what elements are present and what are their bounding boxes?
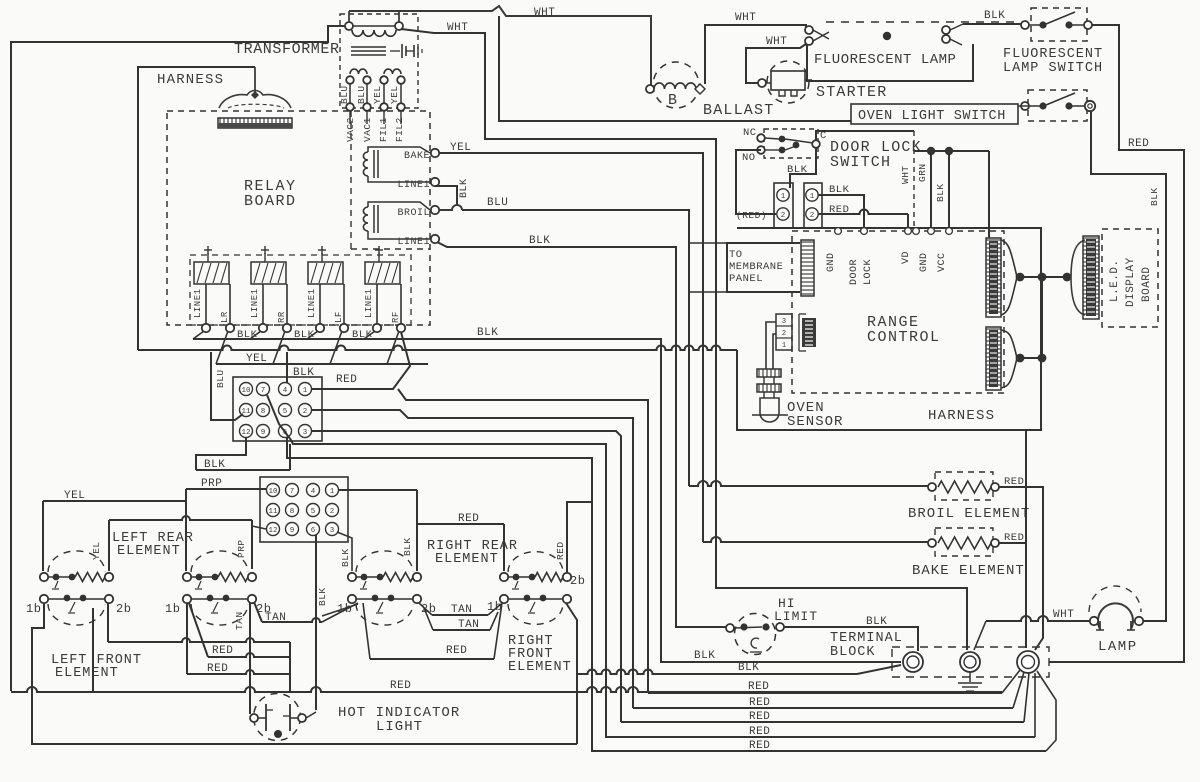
svg-text:LINE1: LINE1 (307, 288, 317, 318)
wire: K2 to LINE1 terminal (368, 231, 430, 239)
svg-text:HARNESS: HARNESS (157, 72, 224, 88)
svg-text:2b: 2b (421, 602, 436, 616)
svg-text:HARNESS: HARNESS (928, 408, 995, 424)
P1 pin 3 (299, 425, 312, 438)
relay coil K2 (broil) (363, 207, 368, 231)
wire: K1 to BAKE terminal (368, 147, 430, 153)
wire TAN lower: element3 2b to element4 (424, 608, 433, 630)
svg-text:FLUORESCENT LAMP: FLUORESCENT LAMP (814, 52, 956, 68)
terminal block dashed box (892, 647, 1049, 677)
capacitor / ground at transformer core (390, 50, 400, 52)
svg-text:RED: RED (1004, 476, 1024, 488)
relay board dashed enclosure (167, 111, 430, 325)
door lock switch contacts (757, 134, 765, 142)
svg-text:BAKE: BAKE (404, 151, 430, 162)
relay unit 1 coil (194, 262, 229, 284)
svg-text:7: 7 (290, 488, 295, 496)
P2 pin 9 (286, 523, 299, 536)
oven sensor plug bars (757, 369, 781, 377)
wire TAN: element2 2b to element3 1b (254, 602, 262, 622)
svg-text:LIMIT: LIMIT (774, 609, 818, 624)
secondary terminals row 2 (346, 103, 354, 111)
wire BLK jog LINE1-BROIL (435, 186, 457, 206)
svg-text:NO: NO (742, 152, 756, 164)
door lock switch dashed box (764, 129, 818, 158)
wire RED: J2-2 to range control (818, 210, 908, 215)
wire TAN: element3 2b to element4 1b (419, 603, 432, 615)
hi limit dashed circle (735, 614, 776, 655)
P1 pin 5 (279, 404, 292, 417)
P2 pin 4 (307, 484, 320, 497)
oven lamp terminals (1090, 617, 1098, 625)
wire: primary top link (353, 25, 395, 27)
svg-text:YEL: YEL (372, 85, 383, 104)
svg-text:RED: RED (749, 740, 770, 752)
L.E.D. display board dashed box (1102, 229, 1158, 327)
wire RED fan 2 (633, 707, 1013, 709)
svg-text:TO: TO (729, 249, 743, 261)
svg-text:TAN: TAN (265, 612, 286, 624)
hi limit contacts (726, 624, 734, 632)
wire: P2 pin3 to right rear element left (337, 532, 352, 571)
svg-text:RED: RED (390, 680, 411, 692)
svg-text:PRP: PRP (201, 478, 222, 490)
relay unit 4 contacts (376, 284, 378, 324)
svg-text:WHT: WHT (900, 165, 911, 184)
element switch dashed circle (lower) (508, 604, 563, 624)
wire WHT lower from transformer right terminal down-right (401, 29, 967, 650)
wire BLK: LINE1 terminal to hi-limit (437, 242, 726, 627)
range control side connector (dark) (802, 318, 816, 347)
svg-text:OVEN LIGHT SWITCH: OVEN LIGHT SWITCH (858, 109, 1006, 124)
svg-text:9: 9 (290, 527, 295, 535)
wire: junction run to display connector (914, 150, 989, 152)
svg-text:3: 3 (330, 527, 335, 535)
wire RED fan 1 (to range control feeder x648) (648, 692, 1002, 694)
svg-text:RED: RED (749, 726, 770, 738)
relay unit 1 contacts (205, 284, 207, 324)
wire: P1 pin7 feeder (267, 395, 606, 738)
wire: element3 1b down to hot indicator right (322, 604, 358, 616)
svg-text:LOCK: LOCK (863, 259, 874, 285)
svg-text:LINE1: LINE1 (397, 237, 430, 248)
P2 pin 12 (267, 523, 280, 536)
svg-text:ELEMENT: ELEMENT (508, 660, 572, 675)
svg-text:2: 2 (781, 212, 786, 220)
svg-text:WHT: WHT (447, 22, 468, 34)
svg-text:YEL: YEL (91, 541, 102, 560)
svg-text:BLK: BLK (529, 235, 550, 247)
svg-text:TERMINAL: TERMINAL (830, 631, 903, 646)
wire RED: bake to T3 (999, 542, 1026, 544)
wire: relay 3 diagonals to buses (307, 331, 318, 339)
wire RED: element1 2b to element row (107, 603, 109, 642)
svg-text:SWITCH: SWITCH (830, 154, 891, 171)
svg-text:WHT: WHT (1053, 609, 1074, 621)
svg-text:ELEMENT: ELEMENT (55, 666, 119, 681)
element switch dashed circle (lower) (356, 604, 413, 625)
transformer primary terminal right (395, 22, 403, 30)
svg-text:RR: RR (277, 311, 287, 323)
svg-text:1b: 1b (26, 602, 41, 616)
svg-text:RED: RED (749, 711, 770, 723)
svg-text:YEL: YEL (389, 85, 400, 104)
wire YEL: BAKE terminal to bake element (439, 153, 703, 542)
svg-text:MEMBRANE: MEMBRANE (729, 261, 783, 273)
svg-text:NC: NC (743, 127, 757, 139)
wire BLU: BROIL terminal to broil element (439, 205, 462, 210)
wire RED: element2 1b diagonal (189, 603, 208, 657)
svg-text:LF: LF (334, 311, 344, 323)
terminal T2 (neutral) (960, 652, 980, 672)
bake element resistor (928, 539, 936, 547)
oven sensor bulb (760, 398, 779, 422)
svg-text:RED: RED (1004, 532, 1024, 544)
wire RED fan 4 (606, 736, 1035, 738)
element heater dashed circle (upper) (48, 551, 105, 572)
relay unit 3 coil (308, 262, 343, 284)
element terminals upper (40, 573, 48, 581)
svg-text:8: 8 (290, 508, 295, 516)
svg-text:9: 9 (261, 429, 266, 437)
svg-text:TAN: TAN (451, 604, 472, 616)
range control display connector CN-A (986, 238, 1001, 317)
svg-text:PANEL: PANEL (729, 273, 763, 285)
svg-text:RED: RED (748, 681, 769, 693)
wire: hot indicator right terminal up (306, 712, 316, 718)
P2 pin 11 (267, 504, 280, 517)
fluorescent lamp label box (807, 44, 973, 81)
svg-text:GND: GND (826, 252, 837, 272)
svg-text:TAN: TAN (458, 619, 479, 631)
wire: CN-A to LED board (1017, 276, 1071, 278)
wire: P1 pin3 feeder (311, 431, 621, 722)
terminal LINE1 (bake) (431, 178, 439, 186)
wire: relay 2 diagonals to buses (250, 331, 261, 339)
relay unit 4 terminal (LINE1) (373, 324, 381, 332)
hot indicator terminals (250, 714, 258, 722)
svg-text:BLU: BLU (339, 85, 350, 104)
harness box around relay board (138, 67, 255, 350)
ballast dashed circle (653, 62, 699, 108)
element terminals lower (1b / 2b) (40, 595, 48, 603)
LED board connector (1071, 240, 1085, 315)
wire: door lock NO to J1-2 (736, 150, 776, 214)
svg-text:TAN: TAN (234, 611, 245, 630)
P2 pin 6 (307, 523, 320, 536)
terminal LINE1 (broil) (431, 235, 439, 243)
harness connector bar (hatched) (218, 118, 292, 128)
wire RED: element2 1b down to red bus (186, 603, 188, 674)
connector P2 body (260, 477, 348, 542)
relay unit 2 terminal (RR) (283, 324, 291, 332)
svg-text:CONTROL: CONTROL (867, 329, 941, 346)
wire: P2 pin1 to right rear element (338, 489, 417, 491)
oven lamp envelope dashed arc (1089, 586, 1141, 612)
wire: bottom border loop via element 1b (32, 604, 577, 744)
wire RED fan 5 (592, 750, 1046, 752)
broil element dashed box (935, 472, 993, 500)
relay unit 2 terminal (LINE1) (259, 324, 267, 332)
terminal T3 (1017, 651, 1039, 673)
wire RED fan 3 (621, 721, 1024, 723)
wire: K1 to LINE1 terminal (368, 176, 430, 182)
svg-text:BALLAST: BALLAST (703, 102, 774, 119)
P2 pin 10 (267, 484, 280, 497)
terminal BAKE (431, 149, 439, 157)
svg-text:RED: RED (1128, 138, 1149, 150)
svg-text:LAMP SWITCH: LAMP SWITCH (1003, 61, 1103, 76)
svg-text:RF: RF (391, 311, 401, 323)
svg-text:4: 4 (311, 488, 316, 496)
transformer primary winding (352, 30, 396, 36)
svg-text:2b: 2b (570, 574, 585, 588)
svg-text:2: 2 (782, 330, 786, 338)
transformer secondary winding 1 (350, 69, 367, 74)
fluorescent lamp right terminals (942, 26, 950, 34)
svg-text:RED: RED (458, 513, 479, 525)
svg-text:6: 6 (311, 527, 316, 535)
oven light switch dashed box (1028, 90, 1087, 121)
wire WHT: ballast to fluorescent lamp (705, 25, 806, 84)
wire bus YEL: relay right terminals (216, 363, 428, 365)
ground symbol under T2 (969, 672, 971, 682)
svg-text:RED: RED (336, 374, 357, 386)
range control pins on top edge (835, 228, 842, 235)
P1 pin 9 (257, 425, 270, 438)
membrane connector bar (801, 240, 814, 296)
svg-text:LIGHT: LIGHT (376, 719, 423, 735)
P2 pin 1 (326, 484, 339, 497)
transformer T1 dashed enclosure (340, 14, 418, 108)
P1 pin 12 (240, 425, 253, 438)
ballast inductor (654, 83, 696, 89)
relay unit 2 coil (251, 262, 286, 284)
starter terminal (758, 79, 766, 87)
wire BLK: right front element to terminal block T1 (577, 670, 857, 674)
svg-text:5: 5 (311, 508, 316, 516)
door lock connector J1 (774, 183, 793, 228)
relay unit 1 terminal (LINE1) (202, 324, 210, 332)
wire GRN into range control (930, 151, 932, 228)
transformer core (351, 46, 386, 48)
ballast terminal left (646, 85, 654, 93)
transformer primary terminal left (345, 22, 353, 30)
svg-text:YEL: YEL (246, 353, 267, 365)
wire BLK below P1 (196, 437, 246, 470)
wire BLK: hi limit to T1 (784, 627, 918, 651)
svg-text:BLK: BLK (866, 616, 887, 628)
svg-text:RED: RED (749, 697, 770, 709)
element heater dashed circle (upper) (191, 551, 248, 572)
svg-text:1: 1 (810, 193, 815, 201)
svg-text:BLOCK: BLOCK (830, 645, 876, 660)
wire RED: broil to T3 (999, 487, 1043, 650)
wire: P1 pin1 feeder upper (398, 389, 648, 693)
P2 pin 8 (286, 504, 299, 517)
fluorescent lamp switch dashed box (1031, 8, 1087, 41)
element terminals upper (500, 573, 508, 581)
secondary terminals row 1 (346, 76, 354, 84)
ballast terminal right (diamond) (695, 84, 705, 94)
P1 pin 6 (279, 425, 292, 438)
svg-text:BLK: BLK (477, 327, 498, 339)
wire BLU into P1 (211, 352, 243, 420)
svg-text:YEL: YEL (64, 490, 85, 502)
bake element dashed box (935, 528, 993, 556)
relay unit 2 contacts (262, 284, 264, 324)
svg-text:DOOR: DOOR (849, 259, 860, 285)
wire PRP: P2 pin10 to left rear element (186, 488, 266, 490)
wire TAN: element2 2b down to hot indicator (249, 603, 251, 714)
svg-text:1: 1 (303, 387, 308, 395)
svg-text:BLK: BLK (984, 10, 1005, 22)
P1 pin 4 (279, 383, 292, 396)
wire stubs from transformer secondary into relay board (349, 111, 351, 124)
wire: oven light switch to oven lamp (1091, 111, 1166, 621)
svg-text:BLK: BLK (787, 164, 808, 176)
terminal BROIL (431, 206, 439, 214)
svg-text:FLUORESCENT: FLUORESCENT (1003, 47, 1103, 62)
svg-text:2b: 2b (116, 602, 131, 616)
svg-text:BLK: BLK (829, 184, 850, 196)
wires from membrane panel (690, 242, 727, 244)
wire WHT from transformer right terminal (top run) (398, 11, 400, 22)
connector P1 body (233, 377, 322, 441)
relay unit 1 terminal (LR) (226, 324, 234, 332)
svg-text:LR: LR (220, 311, 230, 323)
wire RED: right front element to control feeder (567, 502, 591, 575)
svg-text:ELEMENT: ELEMENT (435, 552, 499, 567)
svg-text:BROIL ELEMENT: BROIL ELEMENT (908, 506, 1030, 522)
svg-text:FIL2: FIL2 (394, 117, 405, 142)
svg-text:B: B (668, 92, 678, 109)
relay unit 3 terminal (LINE1) (316, 324, 324, 332)
wire YEL to left front element (43, 500, 186, 502)
svg-text:TRANSFORMER: TRANSFORMER (234, 41, 340, 58)
svg-text:LAMP: LAMP (1098, 639, 1138, 655)
svg-text:VCC: VCC (937, 252, 948, 272)
wire: element4 2b to BLK feed (566, 603, 577, 744)
svg-text:BOARD: BOARD (1141, 266, 1153, 302)
svg-text:10: 10 (241, 387, 251, 395)
wire: display bus vertical (1041, 277, 1043, 358)
P1 pin 1 (299, 383, 312, 396)
wire RED: P1 pin1 to relay RF (311, 332, 410, 389)
svg-text:LINE1: LINE1 (364, 288, 374, 318)
wire: long bottom RED run from left front element 1b to terminal block fan (11, 687, 1002, 692)
wire: door lock C up to range control (816, 131, 914, 140)
range control display connector CN-B (986, 327, 1001, 390)
starter body (771, 71, 805, 90)
wire: P1 pin6 feeder (287, 437, 592, 752)
wire WHT: starter to lamp (746, 44, 806, 83)
fluorescent lamp cathode dot (883, 32, 891, 40)
fluorescent lamp left terminals (805, 26, 813, 34)
svg-text:BLK: BLK (293, 367, 314, 379)
harness connector dome to relay board (254, 67, 256, 95)
wire: K2 to BROIL terminal (368, 202, 430, 210)
wire: relay 4 diagonals to buses (364, 331, 375, 339)
relay section divider (dashed) (350, 111, 352, 249)
svg-text:BLU: BLU (215, 369, 226, 388)
relay unit 3 terminal (LF) (340, 324, 348, 332)
svg-text:1b: 1b (165, 602, 180, 616)
P2 pin 5 (307, 504, 320, 517)
svg-text:RED: RED (829, 204, 849, 216)
P2 pin 7 (286, 484, 299, 497)
svg-text:BLK: BLK (1149, 187, 1160, 206)
svg-text:1: 1 (781, 193, 786, 201)
wire RED: lamp switch to terminal block T3 (1049, 25, 1184, 662)
svg-text:RED: RED (555, 541, 566, 560)
svg-text:2: 2 (303, 408, 308, 416)
svg-text:WHT: WHT (534, 7, 555, 19)
svg-text:ELEMENT: ELEMENT (117, 544, 181, 559)
element terminals lower (1b / 2b) (348, 595, 356, 603)
wire: left outer border (BLK) (11, 26, 345, 691)
wire: transformer left terminal to border (348, 11, 350, 22)
svg-text:4: 4 (283, 387, 288, 395)
svg-text:STARTER: STARTER (816, 84, 887, 101)
svg-text:2: 2 (810, 212, 815, 220)
svg-text:WHT: WHT (766, 36, 787, 48)
svg-text:1: 1 (330, 488, 335, 496)
relay unit 4 coil (365, 262, 400, 284)
relay coil K1 (bake) (363, 152, 368, 176)
wire: P1 pin2 feeder (311, 410, 633, 708)
wire: element1 wiper to long RED (92, 608, 94, 692)
wire BLK: door lock C to J1-1 (790, 148, 816, 188)
P2 pin 3 (326, 523, 339, 536)
svg-text:3: 3 (782, 318, 786, 326)
svg-text:10: 10 (268, 488, 278, 496)
svg-text:BLK: BLK (402, 537, 413, 556)
range control dashed board (792, 231, 1004, 393)
wire WHT: T2 to oven lamp (974, 621, 986, 650)
P1 pin 7 (257, 383, 270, 396)
P1 pin 10 (240, 383, 253, 396)
svg-text:RED: RED (212, 645, 233, 657)
hot indicator light dashed circle (254, 694, 301, 741)
wire BLK into range control (948, 151, 950, 228)
fluorescent lamp tube (dashed) (826, 21, 1016, 23)
svg-text:BLK: BLK (340, 548, 351, 567)
svg-text:5: 5 (283, 408, 288, 416)
wire RED: right rear to right front element (417, 523, 504, 525)
element switch dashed circle (lower) (48, 604, 105, 625)
svg-text:12: 12 (268, 527, 277, 535)
transformer secondary winding 2 (384, 69, 401, 74)
wire: elements to P2 pin12 (109, 516, 252, 520)
P2 pin 2 (326, 504, 339, 517)
P1 pin 11 (240, 404, 253, 417)
element heater dashed circle (upper) (508, 552, 563, 572)
svg-text:BLU: BLU (356, 85, 367, 104)
element switch dashed circle (lower) (191, 604, 248, 625)
svg-text:GND: GND (919, 252, 930, 272)
wires from sensor connector down (766, 322, 776, 369)
svg-text:BROIL: BROIL (397, 208, 430, 219)
svg-text:LINE1: LINE1 (397, 180, 430, 191)
svg-text:SENSOR: SENSOR (787, 414, 843, 430)
svg-text:RED: RED (207, 663, 228, 675)
terminal T1 (903, 652, 923, 672)
svg-text:7: 7 (261, 387, 266, 395)
element terminals upper (348, 573, 356, 581)
svg-text:8: 8 (261, 408, 266, 416)
wire: relay 1 diagonals to buses (193, 331, 204, 339)
